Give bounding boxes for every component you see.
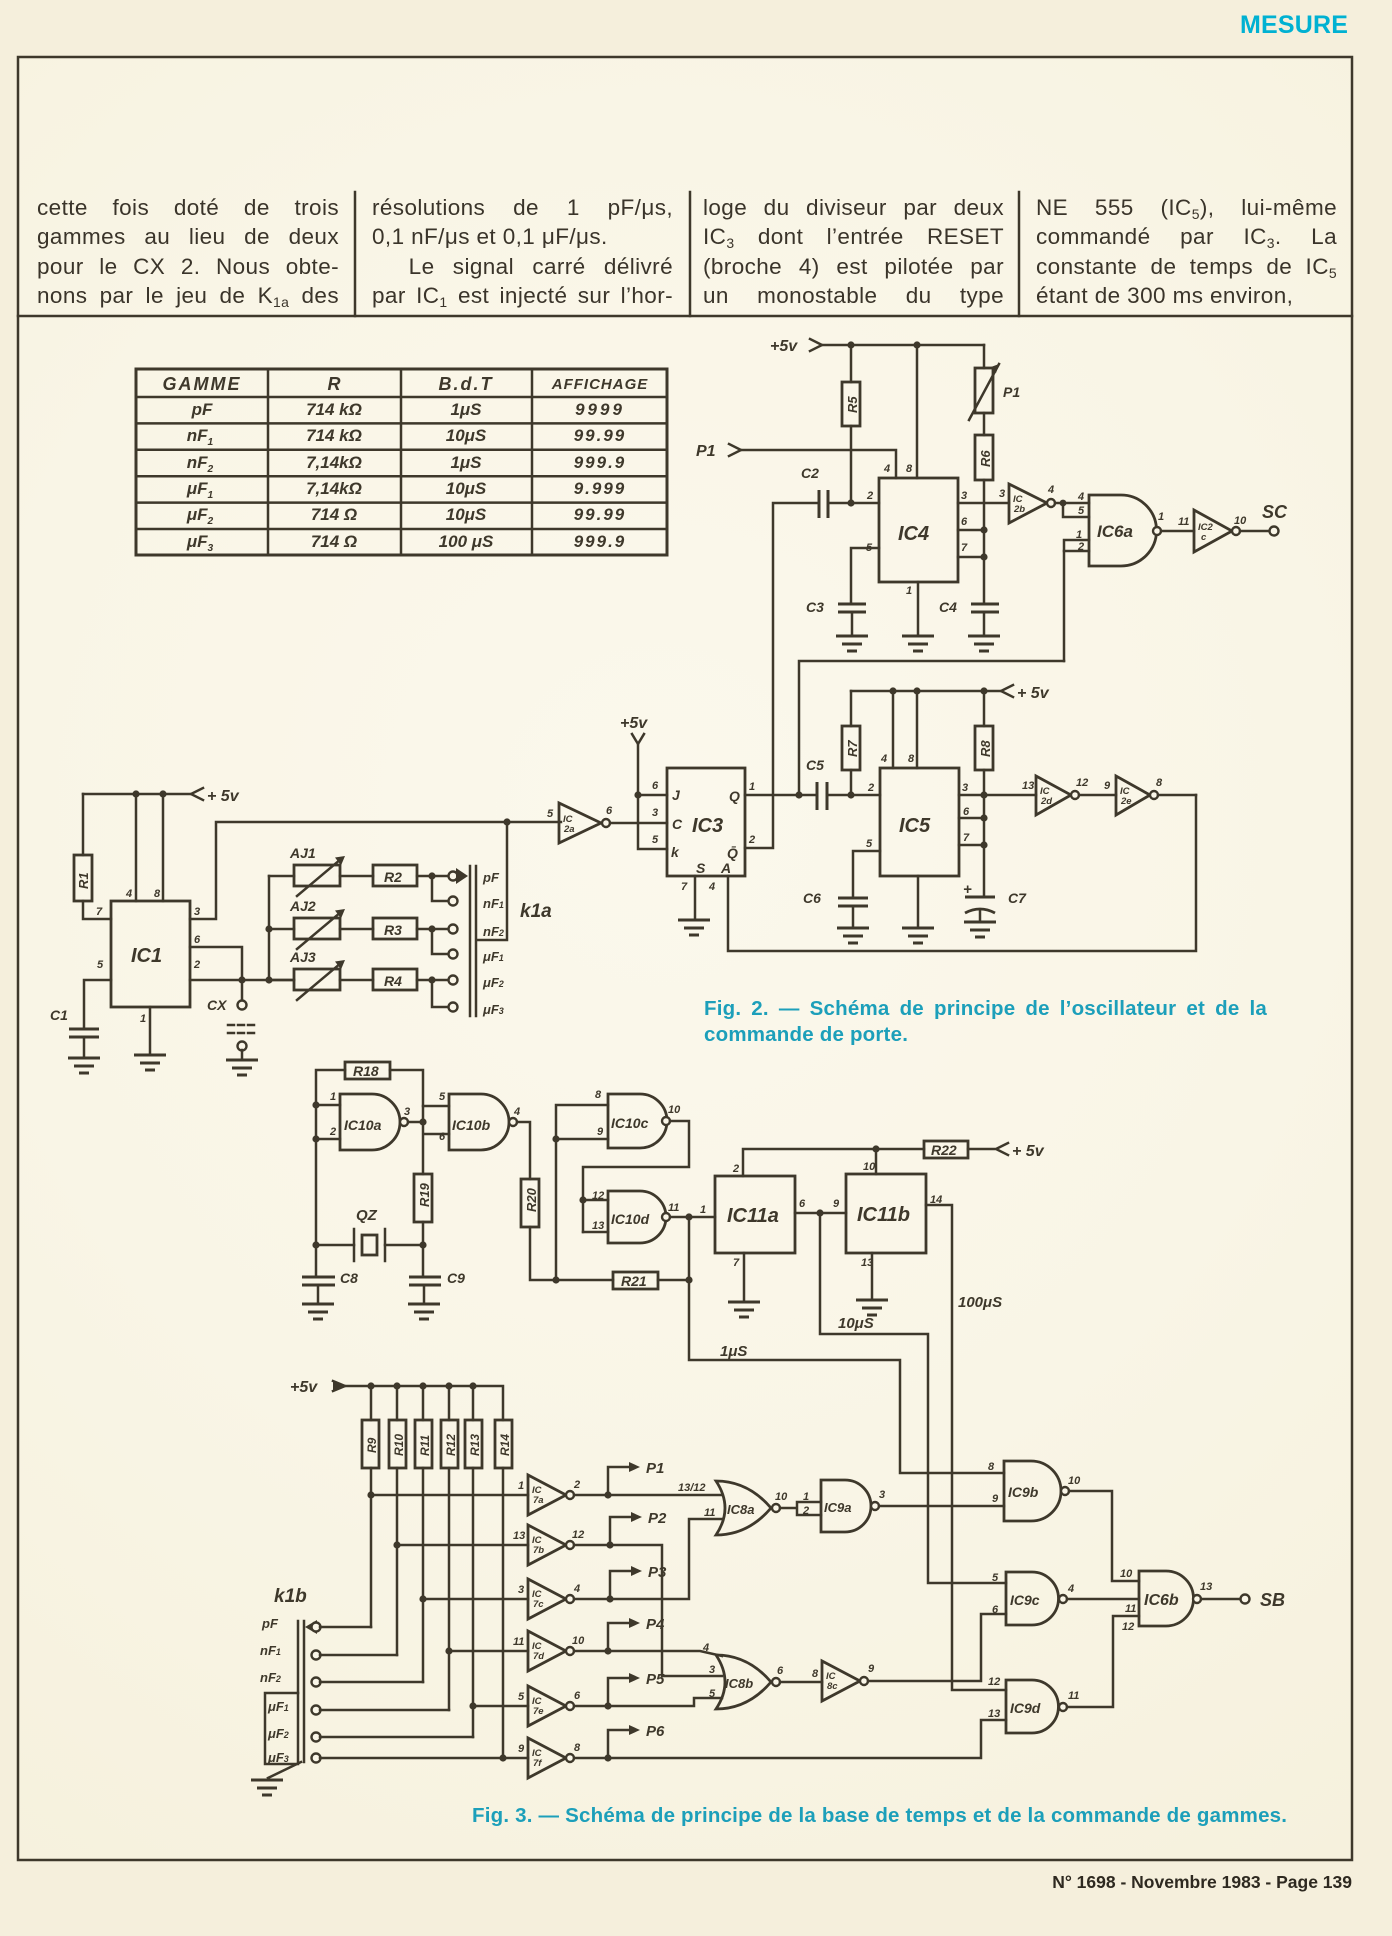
potentiometer P1 bbox=[969, 345, 1020, 420]
IC2b output bubble bbox=[1047, 499, 1055, 507]
svg-text:5: 5 bbox=[439, 1091, 446, 1103]
wire +5v rail IC1 bbox=[83, 793, 191, 796]
wire IC11a pin7 to ground bbox=[743, 1253, 746, 1302]
IC8b output bubble bbox=[772, 1678, 780, 1686]
IC11b (divider) bbox=[846, 1174, 926, 1253]
svg-text:R6: R6 bbox=[978, 450, 993, 467]
junction dot R14-IC7f bbox=[499, 1754, 506, 1761]
junction dot IC10d in1 bbox=[579, 1196, 586, 1203]
svg-text:4: 4 bbox=[702, 1642, 709, 1654]
IC7e output bubble bbox=[566, 1702, 574, 1710]
inverter IC8c bbox=[822, 1661, 875, 1701]
svg-text:8: 8 bbox=[154, 888, 161, 900]
k1a range labels bbox=[482, 870, 504, 1017]
svg-text:R7: R7 bbox=[845, 740, 860, 757]
junction dot crystal left bbox=[312, 1241, 319, 1248]
wire IC1 pin2 bbox=[190, 979, 294, 982]
wire rail to crystal bbox=[316, 1244, 354, 1247]
wire IC1 pin5 to C1 bbox=[84, 980, 111, 1028]
svg-text:AJ3: AJ3 bbox=[289, 949, 316, 965]
junction dot P6 bbox=[604, 1754, 611, 1761]
svg-text:IC4: IC4 bbox=[898, 523, 929, 545]
ground IC1 bbox=[134, 1055, 166, 1070]
junction dot IC10c in2 bbox=[552, 1135, 559, 1142]
svg-text:3: 3 bbox=[709, 1664, 715, 1676]
svg-text:R10: R10 bbox=[392, 1434, 406, 1456]
svg-text:8: 8 bbox=[988, 1461, 995, 1473]
svg-text:9: 9 bbox=[518, 1743, 525, 1755]
svg-text:IC10b: IC10b bbox=[452, 1117, 491, 1133]
svg-text:SB: SB bbox=[1260, 1590, 1285, 1610]
junction dot CX bbox=[238, 976, 245, 983]
svg-text:12: 12 bbox=[592, 1190, 604, 1202]
svg-text:QZ: QZ bbox=[356, 1207, 378, 1224]
svg-text:6: 6 bbox=[194, 934, 201, 946]
svg-text:2: 2 bbox=[193, 959, 200, 971]
wire IC7d input line bbox=[449, 1650, 528, 1653]
IC2a output bubble bbox=[602, 819, 610, 827]
svg-text:7a: 7a bbox=[533, 1495, 544, 1506]
capacitor C6 bbox=[803, 890, 868, 906]
ground C4 bbox=[968, 636, 1000, 651]
svg-text:P6: P6 bbox=[646, 1723, 665, 1740]
wire R7 to IC5 pin2 node bbox=[850, 770, 853, 795]
trimmer AJ2 bbox=[289, 898, 345, 949]
capacitor C8 bbox=[302, 1270, 358, 1286]
svg-text:11: 11 bbox=[513, 1636, 524, 1648]
svg-text:R18: R18 bbox=[353, 1063, 379, 1079]
resistor R12 bbox=[441, 1420, 458, 1468]
svg-text:3: 3 bbox=[961, 490, 967, 502]
svg-text:1: 1 bbox=[803, 1491, 809, 1503]
wire rail to R8 bbox=[983, 691, 986, 726]
svg-text:6: 6 bbox=[961, 516, 968, 528]
wire R19 to C9 bbox=[422, 1222, 425, 1277]
wire IC7c input line bbox=[423, 1598, 528, 1601]
wire R18 left to input rail bbox=[316, 1070, 345, 1277]
+5v supply arrow (IC4) bbox=[770, 338, 822, 355]
wire IC1 pin6 bbox=[190, 947, 242, 980]
svg-text:1: 1 bbox=[518, 1480, 524, 1492]
node bar to IC10b inputs bbox=[423, 1106, 449, 1174]
svg-text:10: 10 bbox=[1120, 1568, 1133, 1580]
svg-text:2: 2 bbox=[866, 490, 873, 502]
captions bbox=[704, 996, 1267, 1048]
junction dot rail A bbox=[132, 790, 139, 797]
IC8a output bubble bbox=[772, 1504, 780, 1512]
svg-text:7e: 7e bbox=[533, 1706, 544, 1717]
IC10d output bubble bbox=[662, 1213, 670, 1221]
svg-text:pF: pF bbox=[482, 870, 500, 885]
resistor R18 bbox=[345, 1062, 390, 1079]
junction dot rail R8 bbox=[980, 687, 987, 694]
resistor R1 bbox=[74, 855, 92, 901]
svg-text:9: 9 bbox=[992, 1493, 999, 1505]
output tap P4 bbox=[608, 1616, 665, 1651]
svg-text:C: C bbox=[672, 816, 683, 832]
svg-text:12: 12 bbox=[1076, 777, 1088, 789]
wire IC5 pin6 bbox=[959, 817, 984, 820]
output tap P2 bbox=[610, 1510, 667, 1545]
junction dot R20 node bbox=[552, 1276, 559, 1283]
wire R18 right to output node bbox=[390, 1070, 423, 1106]
junction dot IC10a out bbox=[419, 1118, 426, 1125]
wire pin2 node to CX terminal bbox=[241, 980, 244, 1000]
svg-text:R14: R14 bbox=[498, 1434, 512, 1456]
svg-text:pF: pF bbox=[261, 1616, 279, 1631]
svg-text:1: 1 bbox=[330, 1091, 336, 1103]
svg-text:SC: SC bbox=[1262, 502, 1288, 522]
svg-text:2: 2 bbox=[867, 782, 874, 794]
svg-text:R19: R19 bbox=[417, 1182, 432, 1207]
switch k1a common bracket bbox=[477, 822, 507, 940]
SB terminal bbox=[1241, 1595, 1250, 1604]
svg-text:9: 9 bbox=[1104, 780, 1111, 792]
wire C4 to ground bbox=[983, 612, 986, 636]
svg-text:10: 10 bbox=[863, 1161, 876, 1173]
wire Q node up to gate bus bbox=[799, 661, 1064, 795]
svg-text:2: 2 bbox=[573, 1479, 580, 1491]
IC8c output bubble bbox=[860, 1677, 868, 1685]
svg-text:2a: 2a bbox=[563, 824, 575, 835]
junction dot R12-IC7d bbox=[445, 1647, 452, 1654]
svg-text:IC3: IC3 bbox=[692, 815, 723, 837]
svg-text:CX: CX bbox=[207, 997, 228, 1013]
svg-text:nF1: nF1 bbox=[260, 1643, 281, 1658]
wire IC7a input line bbox=[371, 1494, 528, 1497]
inverter IC7b bbox=[513, 1525, 584, 1565]
svg-text:R1: R1 bbox=[76, 872, 91, 889]
capacitor C9 bbox=[409, 1270, 465, 1286]
junction dot P3 bbox=[606, 1595, 613, 1602]
svg-text:R2: R2 bbox=[384, 869, 402, 885]
IC1 bbox=[111, 901, 190, 1007]
svg-text:11: 11 bbox=[704, 1507, 715, 1519]
switch k1b wiper arrow bbox=[305, 1620, 317, 1634]
junction dot P4 bbox=[604, 1647, 611, 1654]
switch k1a wiper arrow bbox=[456, 868, 468, 884]
svg-text:3: 3 bbox=[404, 1106, 410, 1118]
svg-text:Q̄: Q̄ bbox=[727, 844, 738, 861]
resistor R2 bbox=[373, 865, 417, 886]
ground C8 bbox=[302, 1304, 334, 1319]
wire R13 column bbox=[472, 1468, 475, 1737]
wire AJ1-R2 bbox=[340, 875, 373, 878]
svg-text:IC8b: IC8b bbox=[725, 1676, 753, 1691]
IC9d output bubble bbox=[1059, 1703, 1067, 1711]
wire C3 to ground bbox=[851, 612, 854, 636]
svg-text:10: 10 bbox=[775, 1491, 788, 1503]
IC7d output bubble bbox=[566, 1647, 574, 1655]
wire +5v rail IC5 bbox=[851, 690, 1001, 693]
svg-text:C8: C8 bbox=[340, 1270, 358, 1286]
table text bbox=[152, 374, 252, 395]
+5v supply arrow (range resistors) bbox=[290, 1379, 345, 1396]
svg-text:1μS: 1μS bbox=[720, 1343, 747, 1360]
svg-text:13: 13 bbox=[592, 1220, 604, 1232]
svg-text:R20: R20 bbox=[524, 1187, 539, 1212]
IC9c output bubble bbox=[1059, 1595, 1067, 1603]
svg-text:S: S bbox=[696, 860, 706, 876]
svg-text:IC10c: IC10c bbox=[611, 1115, 649, 1131]
wire bus to AJ1 bbox=[269, 875, 294, 878]
wire bus to AJ2 bbox=[269, 928, 294, 931]
ground CX bbox=[226, 1060, 258, 1075]
NAND gate IC10c bbox=[595, 1089, 681, 1148]
svg-text:IC1: IC1 bbox=[131, 945, 162, 967]
svg-text:nF1: nF1 bbox=[483, 896, 504, 911]
wire to IC10c pin9 bbox=[556, 1138, 608, 1141]
wire IC11b pin14 100us feed bbox=[926, 1205, 1006, 1690]
inverter IC2e bbox=[1116, 776, 1163, 815]
node rail-R1 bbox=[82, 794, 85, 855]
wire rail to IC10a pin2 bbox=[316, 1138, 340, 1141]
wire IC4 pin5 to C3 bbox=[851, 548, 879, 604]
svg-text:3: 3 bbox=[652, 807, 658, 819]
svg-text:μF3: μF3 bbox=[482, 1002, 504, 1017]
svg-text:IC10a: IC10a bbox=[344, 1117, 382, 1133]
junction dot pin7 bbox=[980, 841, 987, 848]
capacitor C2 bbox=[801, 465, 828, 518]
inverter IC7d bbox=[513, 1631, 585, 1671]
switch k1b wafer bar bbox=[298, 1621, 304, 1762]
svg-text:7: 7 bbox=[96, 906, 103, 918]
output tap P5 bbox=[608, 1671, 665, 1706]
+5v supply arrow (IC5) bbox=[1001, 685, 1050, 702]
ground IC5 bbox=[902, 928, 934, 943]
wire node up to IC10c inputs bbox=[556, 1105, 608, 1280]
NAND gate IC10b bbox=[439, 1091, 520, 1150]
wire IC2b to IC6a upper pair bbox=[1055, 502, 1063, 505]
svg-text:8: 8 bbox=[1156, 777, 1163, 789]
svg-text:4: 4 bbox=[1067, 1583, 1074, 1595]
svg-text:8: 8 bbox=[574, 1742, 581, 1754]
switch k1a wafer bar bbox=[470, 866, 476, 1016]
wire R11 column bbox=[422, 1468, 425, 1682]
svg-text:7: 7 bbox=[733, 1257, 740, 1269]
ground k1b bbox=[251, 1780, 283, 1795]
svg-text:4: 4 bbox=[883, 463, 890, 475]
junction dot AJ2 bbox=[265, 925, 272, 932]
svg-text:11: 11 bbox=[1125, 1603, 1136, 1615]
NAND gate IC10a bbox=[329, 1091, 410, 1150]
ground IC4 bbox=[902, 636, 934, 651]
wire IC11a pin2 to +5v line bbox=[743, 1149, 924, 1176]
CX terminal bottom bbox=[238, 1042, 247, 1051]
wire IC11b pin13 to ground bbox=[871, 1253, 874, 1300]
resistor R13 bbox=[465, 1420, 482, 1468]
wire IC7e input line bbox=[473, 1705, 528, 1708]
wire IC5 pin5 to C6 bbox=[853, 851, 880, 898]
svg-text:10μS: 10μS bbox=[838, 1315, 874, 1332]
NAND gate IC6a bbox=[1089, 495, 1164, 566]
stubs to IC10d bbox=[583, 1200, 608, 1232]
ground C3 bbox=[836, 636, 868, 651]
svg-text:4: 4 bbox=[708, 881, 715, 893]
+5v supply arrow (IC3) bbox=[620, 715, 648, 744]
junction dot crystal right bbox=[419, 1241, 426, 1248]
inverter IC2d bbox=[1022, 776, 1088, 815]
NAND gate IC9d bbox=[1006, 1680, 1079, 1733]
output tap P3 bbox=[610, 1564, 667, 1599]
svg-text:13/12: 13/12 bbox=[678, 1482, 706, 1494]
junction dot R4 bbox=[428, 976, 435, 983]
svg-text:7f: 7f bbox=[533, 1758, 542, 1769]
switch k1a contacts bbox=[449, 872, 458, 1012]
NAND gate IC9c bbox=[1006, 1572, 1074, 1625]
wire R9 column bbox=[370, 1468, 373, 1627]
svg-text:C5: C5 bbox=[806, 757, 824, 773]
svg-text:A: A bbox=[720, 860, 731, 876]
svg-text:13: 13 bbox=[513, 1530, 525, 1542]
+5v rail bbox=[345, 1386, 503, 1420]
wire IC9a to IC9b pin9 bbox=[879, 1505, 1004, 1508]
wire drop to uF1 contact bbox=[432, 929, 449, 954]
wire R4 to uF2 contact bbox=[417, 979, 449, 982]
IC6a pin labels bbox=[1076, 491, 1085, 553]
wire IC5 pin1 to ground bbox=[917, 876, 920, 928]
junction dots rail R9-R13 bbox=[367, 1382, 476, 1389]
svg-text:+: + bbox=[963, 881, 972, 898]
svg-text:μF2: μF2 bbox=[482, 975, 504, 990]
junction dot R5-C2 bbox=[847, 499, 854, 506]
svg-text:C7: C7 bbox=[1008, 890, 1027, 906]
svg-text:P1: P1 bbox=[696, 443, 716, 460]
svg-text:6: 6 bbox=[963, 806, 970, 818]
output tap P1 bbox=[608, 1460, 664, 1495]
inverter IC2b bbox=[999, 484, 1054, 523]
wire IC3 Qbar to C2 riser bbox=[745, 503, 819, 848]
svg-text:3: 3 bbox=[194, 906, 200, 918]
wire IC11a pin6 to IC11b pin9 bbox=[795, 1212, 846, 1215]
svg-text:2: 2 bbox=[1077, 541, 1084, 553]
ground IC3 S bbox=[678, 920, 710, 935]
junction dot P2 bbox=[606, 1541, 613, 1548]
wire pF contact to IC7a bbox=[320, 1626, 371, 1629]
svg-text:IC6a: IC6a bbox=[1097, 522, 1133, 541]
svg-text:2d: 2d bbox=[1040, 796, 1052, 807]
svg-text:5: 5 bbox=[518, 1691, 525, 1703]
wires rail to resistors bbox=[371, 1386, 473, 1420]
wire IC5 pin3 to IC2d bbox=[959, 794, 1036, 797]
svg-text:6: 6 bbox=[606, 805, 613, 817]
wire C6 to ground bbox=[852, 906, 855, 928]
IC7f output bubble bbox=[566, 1754, 574, 1762]
resistor R22 bbox=[924, 1141, 968, 1158]
svg-text:13: 13 bbox=[988, 1708, 1000, 1720]
svg-text:9: 9 bbox=[833, 1198, 840, 1210]
wire IC10a out to node bbox=[408, 1121, 423, 1124]
svg-text:2: 2 bbox=[802, 1505, 809, 1517]
svg-text:10: 10 bbox=[1234, 515, 1247, 527]
svg-text:8: 8 bbox=[595, 1089, 602, 1101]
svg-text:2b: 2b bbox=[1013, 504, 1025, 515]
svg-text:+5v: +5v bbox=[290, 1379, 318, 1396]
svg-text:C9: C9 bbox=[447, 1270, 465, 1286]
resistor R5 bbox=[842, 382, 860, 426]
svg-text:IC5: IC5 bbox=[899, 815, 931, 837]
wire IC7b out to IC8b riser bbox=[574, 1545, 722, 1676]
wire C8 to ground bbox=[317, 1285, 320, 1304]
NAND gate IC9a bbox=[821, 1480, 885, 1532]
svg-text:5: 5 bbox=[709, 1688, 716, 1700]
wire IC9b to IC6b pin10 bbox=[1069, 1491, 1139, 1581]
junction dot J bbox=[634, 791, 641, 798]
junction dot 10us bbox=[816, 1209, 823, 1216]
svg-text:k1a: k1a bbox=[520, 901, 552, 922]
resistor R7 bbox=[842, 726, 860, 770]
svg-text:13: 13 bbox=[1022, 780, 1034, 792]
wire AJ3-R4 bbox=[340, 979, 373, 982]
crystal QZ bbox=[354, 1207, 385, 1261]
junction dot pin6 bbox=[980, 526, 987, 533]
trimmer AJ1 bbox=[289, 845, 345, 896]
footer bbox=[1050, 1872, 1352, 1893]
IC9a pin labels bbox=[802, 1491, 809, 1517]
wire rail to IC10a pin1 bbox=[316, 1104, 340, 1107]
svg-text:11: 11 bbox=[1068, 1690, 1079, 1702]
inverter IC2a bbox=[547, 803, 613, 843]
wire IC4 pin6 bbox=[958, 529, 984, 532]
wire R2 to pF contact bbox=[417, 875, 449, 878]
wire IC5 pin7 bbox=[959, 844, 984, 847]
junction dot rail IC5 pin8 bbox=[913, 687, 920, 694]
junction dot R11-IC7c bbox=[419, 1595, 426, 1602]
svg-text:3: 3 bbox=[879, 1489, 885, 1501]
svg-text:6: 6 bbox=[574, 1690, 581, 1702]
svg-text:IC6b: IC6b bbox=[1144, 1592, 1179, 1609]
wire IC7b input line bbox=[397, 1544, 528, 1547]
svg-text:8c: 8c bbox=[827, 1681, 838, 1692]
wire IC10d out bbox=[670, 1216, 715, 1219]
wire R1 to IC1 pin7 bbox=[83, 901, 111, 919]
svg-text:P1: P1 bbox=[1003, 384, 1020, 400]
svg-text:C2: C2 bbox=[801, 465, 819, 481]
resistor R8 bbox=[975, 726, 993, 770]
svg-text:12: 12 bbox=[1122, 1621, 1134, 1633]
wire bus to AJ3 bbox=[269, 979, 294, 982]
wire rail to R5 bbox=[850, 345, 853, 382]
svg-text:100μS: 100μS bbox=[958, 1294, 1002, 1311]
svg-text:R13: R13 bbox=[468, 1434, 482, 1456]
junction dot P5 bbox=[604, 1702, 611, 1709]
svg-text:4: 4 bbox=[573, 1583, 580, 1595]
svg-text:5: 5 bbox=[97, 959, 104, 971]
wire +5v rail IC4 bbox=[823, 344, 984, 347]
IC9b output bubble bbox=[1061, 1487, 1069, 1495]
svg-text:R4: R4 bbox=[384, 973, 402, 989]
wire rail to IC5 pin4 bbox=[892, 691, 895, 768]
wire IC10c out to IC10d inputs bbox=[583, 1121, 689, 1232]
IC10c output bubble bbox=[662, 1117, 670, 1125]
svg-text:7b: 7b bbox=[533, 1545, 544, 1556]
svg-text:IC9b: IC9b bbox=[1008, 1484, 1039, 1500]
svg-text:IC8a: IC8a bbox=[727, 1502, 754, 1517]
junction dot wiper-bus bbox=[503, 818, 510, 825]
svg-text:7: 7 bbox=[681, 881, 688, 893]
svg-text:C6: C6 bbox=[803, 890, 821, 906]
IC10b output bubble bbox=[509, 1118, 517, 1126]
svg-text:1: 1 bbox=[1158, 511, 1164, 523]
inverter IC7a bbox=[518, 1475, 580, 1515]
resistor R4 bbox=[373, 969, 417, 990]
svg-text:1: 1 bbox=[906, 585, 912, 597]
svg-text:7: 7 bbox=[963, 832, 970, 844]
wire IC3 Q to C5 bbox=[745, 794, 817, 797]
IC6b pin labels bbox=[1120, 1568, 1136, 1633]
wire rail to IC1 pin4 bbox=[135, 794, 138, 901]
CX terminal top bbox=[238, 1001, 247, 1010]
